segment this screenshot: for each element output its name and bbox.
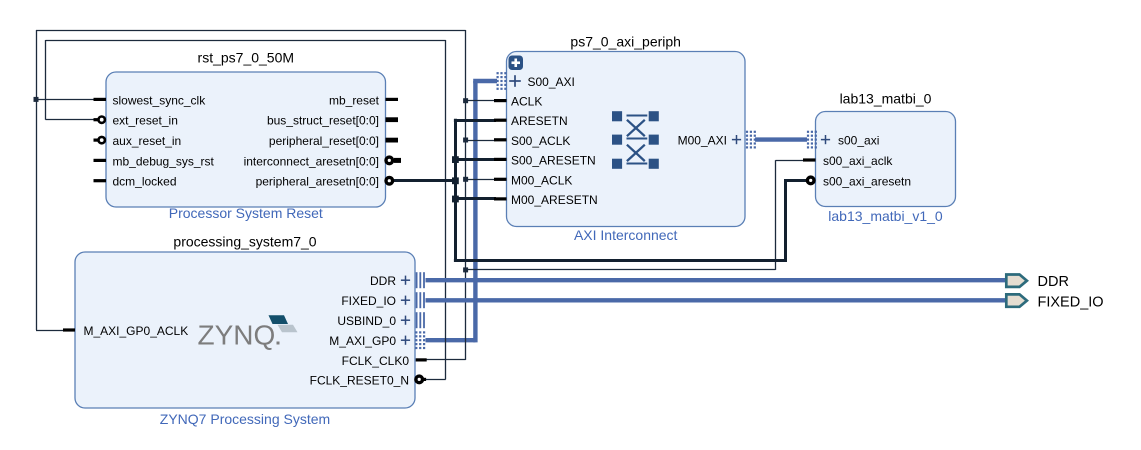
svg-text:ps7_0_axi_periph: ps7_0_axi_periph xyxy=(570,34,681,50)
expand badge plus button xyxy=(509,56,524,71)
pin stub FCLK_CLK0 xyxy=(416,358,427,361)
pin FIXED_IO label and plus xyxy=(341,294,410,308)
interface stub S00_AXI xyxy=(497,72,507,90)
block lab13_matbi_0 body xyxy=(816,112,956,207)
pin stub ext_reset_in xyxy=(94,117,105,123)
pin stub aux_reset_in xyxy=(94,137,105,143)
interface stub USBIND_0 xyxy=(416,312,425,328)
svg-text:S00_ACLK: S00_ACLK xyxy=(511,134,570,148)
svg-text:ZYNQ: ZYNQ xyxy=(198,320,276,351)
junction clock net at M00_ACLK xyxy=(463,177,468,182)
pin label interconnect_aresetn xyxy=(244,154,379,168)
wire peripheral_aresetn vertical xyxy=(454,119,457,260)
wire clock branch horizontal to lab13 xyxy=(466,269,776,271)
svg-text:S00_AXI: S00_AXI xyxy=(528,75,575,89)
pin label M00_ARESETN xyxy=(511,193,598,207)
pin USBIND_0 label and plus xyxy=(337,314,410,328)
pin M00_AXI label and plus xyxy=(678,134,741,148)
junction clock net at s00_axi_aclk branch xyxy=(463,267,468,272)
junction aresetn net at peripheral feed xyxy=(452,177,459,184)
svg-text:M_AXI_GP0: M_AXI_GP0 xyxy=(329,334,396,348)
port DDR shape xyxy=(1006,275,1027,287)
pin label peripheral_reset xyxy=(269,134,379,148)
title processing_system7_0 xyxy=(173,234,316,250)
wire clock branch to ACLK xyxy=(466,100,496,102)
title rst_ps7_0_50M xyxy=(198,50,295,66)
wire aresetn right vertical to lab13 xyxy=(784,180,787,260)
pin stub ARESETN xyxy=(494,119,507,122)
logo dark parallelogram xyxy=(269,315,289,324)
svg-text:ACLK: ACLK xyxy=(511,95,542,109)
interface stub s00_axi xyxy=(807,131,817,149)
svg-text:FIXED_IO: FIXED_IO xyxy=(341,294,396,308)
logo light parallelogram xyxy=(278,325,298,333)
svg-text:s00_axi_aclk: s00_axi_aclk xyxy=(823,154,893,168)
svg-text:aux_reset_in: aux_reset_in xyxy=(113,134,182,148)
pin label FCLK_CLK0 xyxy=(342,354,410,368)
interface stub FIXED_IO xyxy=(416,292,425,308)
wire M_AXI_GP0 to S00_AXI bus horizontal top xyxy=(473,79,497,83)
wire FIXED_IO bus xyxy=(426,298,1006,302)
wire M_AXI_GP0 to S00_AXI bus vertical xyxy=(473,81,477,342)
svg-text:Processor System Reset: Processor System Reset xyxy=(169,205,323,221)
logo ZYNQ text xyxy=(198,320,280,351)
svg-text:s00_axi_aresetn: s00_axi_aresetn xyxy=(823,174,911,188)
pin stub s00_axi_aclk xyxy=(803,158,816,161)
wire clock branch to M_AXI_GP0_ACLK xyxy=(36,330,66,332)
wire aresetn into s00_axi_aresetn pin xyxy=(784,179,806,182)
svg-text:ARESETN: ARESETN xyxy=(511,114,568,128)
title lab13_matbi_0 xyxy=(840,90,932,106)
wire FCLK_CLK0 net left vertical xyxy=(36,30,38,330)
wire peripheral_aresetn branch to ARESETN xyxy=(454,119,496,122)
port FIXED_IO label xyxy=(1038,294,1104,310)
wire FCLK_CLK0 net main vertical xyxy=(465,30,467,360)
pin label S00_ACLK xyxy=(511,134,570,148)
svg-text:slowest_sync_clk: slowest_sync_clk xyxy=(113,93,207,107)
pin stub M00_ACLK xyxy=(494,178,507,181)
block processing_system7_0 body xyxy=(75,252,415,408)
title ps7_0_axi_periph xyxy=(570,34,681,50)
interface stub M_AXI_GP0 xyxy=(415,331,425,349)
pin label bus_struct_reset xyxy=(267,114,379,128)
junction aresetn net at S00_ARESETN xyxy=(452,156,459,163)
pin stub peripheral_reset xyxy=(386,138,399,143)
pin stub M00_ARESETN xyxy=(494,197,507,200)
wire clock branch into s00_axi_aclk pin xyxy=(776,160,809,162)
label AXI Interconnect xyxy=(574,227,678,243)
wire clock branch vertical to s00_axi_aclk xyxy=(775,160,777,270)
junction clock net at slowest_sync_clk branch xyxy=(34,97,39,102)
svg-text:lab13_matbi_0: lab13_matbi_0 xyxy=(840,90,932,106)
pin stub interconnect_aresetn xyxy=(386,157,401,164)
pin stub dcm_locked xyxy=(94,179,107,182)
pin stub s00_axi_aresetn xyxy=(807,177,814,184)
pin label peripheral_aresetn xyxy=(256,175,379,189)
wire M00_AXI to s00_axi bus xyxy=(755,137,807,141)
block ps7_0_axi_periph body xyxy=(507,52,746,227)
svg-text:FIXED_IO: FIXED_IO xyxy=(1038,294,1104,310)
pin label S00_ARESETN xyxy=(511,153,596,167)
svg-text:DDR: DDR xyxy=(1038,274,1069,290)
svg-text:peripheral_aresetn[0:0]: peripheral_aresetn[0:0] xyxy=(256,175,379,189)
label lab13_matbi_v1_0 xyxy=(828,208,943,224)
wire clock branch to S00_ACLK xyxy=(466,140,496,142)
svg-text:mb_reset: mb_reset xyxy=(329,93,380,107)
label Processor System Reset xyxy=(169,205,323,221)
junction clock net at ACLK xyxy=(463,98,468,103)
pin stub FCLK_RESET0_N xyxy=(415,376,426,383)
svg-text:ZYNQ7 Processing System: ZYNQ7 Processing System xyxy=(160,411,330,427)
svg-text:processing_system7_0: processing_system7_0 xyxy=(173,234,316,250)
pin stub S00_ACLK xyxy=(494,138,507,141)
pin stub M_AXI_GP0_ACLK xyxy=(63,328,75,331)
svg-text:lab13_matbi_v1_0: lab13_matbi_v1_0 xyxy=(828,208,943,224)
pin label s00_axi_aclk xyxy=(823,154,893,168)
pin stub peripheral_aresetn xyxy=(386,177,393,184)
interface stub DDR xyxy=(416,272,425,288)
pin s00_axi plus and label xyxy=(821,134,879,148)
pin label s00_axi_aresetn xyxy=(823,174,911,188)
interface stub M00_AXI xyxy=(746,131,756,149)
wire FCLK_RESET0_N net right vertical xyxy=(445,40,447,379)
wire FCLK_RESET0_N net pin segment xyxy=(425,379,446,381)
pin stub mb_debug_sys_rst xyxy=(94,159,107,162)
wire FCLK_RESET0_N net top horizontal xyxy=(46,40,446,42)
svg-text:interconnect_aresetn[0:0]: interconnect_aresetn[0:0] xyxy=(244,154,379,168)
wire aresetn branch to S00_ARESETN xyxy=(455,158,496,161)
svg-text:M00_AXI: M00_AXI xyxy=(678,134,727,148)
pin stub S00_ARESETN xyxy=(494,158,507,161)
svg-text:mb_debug_sys_rst: mb_debug_sys_rst xyxy=(113,154,215,168)
wire aresetn bottom horizontal xyxy=(454,259,787,262)
wire FCLK_RESET0_N net to ext_reset_in xyxy=(46,119,99,121)
pin label mb_debug_sys_rst xyxy=(113,154,215,168)
svg-text:M00_ACLK: M00_ACLK xyxy=(511,173,572,187)
pin label M_AXI_GP0_ACLK xyxy=(84,324,189,338)
pin label dcm_locked xyxy=(113,175,177,189)
pin label FCLK_RESET0_N xyxy=(310,373,409,387)
label ZYNQ7 Processing System xyxy=(160,411,330,427)
pin label aux_reset_in xyxy=(113,134,182,148)
pin S00_AXI plus and label xyxy=(509,75,575,89)
pin label ARESETN xyxy=(511,114,568,128)
pin label ACLK xyxy=(511,95,542,109)
wire clock branch to slowest_sync_clk xyxy=(36,99,95,101)
pin stub mb_reset xyxy=(386,98,399,101)
wire FCLK_RESET0_N net left vertical xyxy=(45,40,47,120)
svg-text:dcm_locked: dcm_locked xyxy=(113,175,177,189)
pin DDR label and plus xyxy=(370,274,410,288)
wire FCLK_CLK0 net top horizontal xyxy=(36,30,466,32)
wire DDR bus xyxy=(426,278,1006,282)
svg-text:USBIND_0: USBIND_0 xyxy=(337,314,396,328)
icon AXI crossbar switch xyxy=(612,111,659,169)
svg-text:M00_ARESETN: M00_ARESETN xyxy=(511,193,598,207)
junction clock net at S00_ACLK xyxy=(463,138,468,143)
pin label mb_reset xyxy=(329,93,380,107)
wire FCLK_CLK0 pin to net xyxy=(426,359,466,361)
pin label slowest_sync_clk xyxy=(113,93,207,107)
svg-text:ext_reset_in: ext_reset_in xyxy=(113,114,178,128)
pin label ext_reset_in xyxy=(113,114,178,128)
block rst_ps7_0_50M body xyxy=(106,72,386,207)
port FIXED_IO shape xyxy=(1006,294,1027,306)
svg-text:FCLK_CLK0: FCLK_CLK0 xyxy=(342,354,410,368)
port DDR label xyxy=(1038,274,1069,290)
pin stub bus_struct_reset xyxy=(386,117,399,122)
pin label M00_ACLK xyxy=(511,173,572,187)
pin stub slowest_sync_clk xyxy=(94,98,107,101)
wire aresetn branch to M00_ARESETN xyxy=(455,197,496,200)
junction aresetn net at M00_ARESETN xyxy=(452,196,459,203)
svg-text:DDR: DDR xyxy=(370,274,396,288)
svg-text:bus_struct_reset[0:0]: bus_struct_reset[0:0] xyxy=(267,114,379,128)
pin M_AXI_GP0 label and plus xyxy=(329,334,410,348)
wire clock branch to M00_ACLK xyxy=(466,179,496,181)
svg-text:M_AXI_GP0_ACLK: M_AXI_GP0_ACLK xyxy=(84,324,189,338)
svg-text:peripheral_reset[0:0]: peripheral_reset[0:0] xyxy=(269,134,379,148)
svg-text:s00_axi: s00_axi xyxy=(838,134,879,148)
pin stub ACLK xyxy=(494,99,507,102)
svg-text:S00_ARESETN: S00_ARESETN xyxy=(511,153,596,167)
svg-text:AXI Interconnect: AXI Interconnect xyxy=(574,227,678,243)
svg-text:rst_ps7_0_50M: rst_ps7_0_50M xyxy=(198,50,295,66)
wire M_AXI_GP0 to S00_AXI bus horizontal low xyxy=(426,338,476,342)
wire peripheral_aresetn feed from rst block xyxy=(394,179,456,182)
svg-text:FCLK_RESET0_N: FCLK_RESET0_N xyxy=(310,373,409,387)
